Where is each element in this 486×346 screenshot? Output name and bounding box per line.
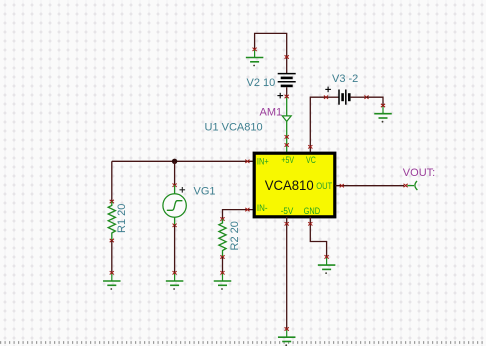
svg-text:OUT: OUT	[316, 181, 332, 191]
svg-text:IN-: IN-	[257, 203, 268, 213]
wire R2 to ground	[222, 257, 224, 273]
pin VC terminal	[308, 145, 312, 148]
wire R1 to ground	[111, 241, 113, 273]
pin IN+ terminal	[245, 160, 249, 163]
svg-text:VG1: VG1	[194, 186, 216, 198]
wire junction to VG1	[174, 161, 176, 185]
resistor R1	[108, 200, 115, 242]
svg-text:GND: GND	[304, 206, 321, 216]
wire IN- to R2	[223, 210, 253, 219]
wire R1 down	[111, 161, 113, 201]
wire VG1 to ground	[174, 225, 176, 272]
wire top-left loop V2 to ground	[255, 33, 287, 57]
generator VG1	[163, 184, 186, 228]
pin GND terminal	[308, 222, 312, 225]
ammeter AM1	[282, 95, 291, 152]
svg-text:V3 -2: V3 -2	[332, 73, 358, 85]
ground R2	[214, 271, 232, 290]
svg-text:AM1: AM1	[260, 107, 283, 119]
resistor R2	[219, 217, 226, 258]
ground GND pin	[318, 255, 336, 274]
svg-text:R2 20: R2 20	[229, 221, 241, 250]
wire GND pin to ground	[310, 217, 326, 257]
ground V3	[374, 104, 392, 123]
pin -5V terminal	[285, 222, 289, 225]
wire V3 to ground	[367, 97, 384, 105]
svg-text:VCA810: VCA810	[265, 177, 314, 193]
wire OUT to VOUT pin	[335, 185, 404, 187]
ground top-left	[246, 48, 264, 67]
pin IN- terminal	[245, 208, 249, 211]
ground R1	[103, 271, 121, 290]
battery V2	[277, 55, 295, 98]
svg-text:VC: VC	[306, 155, 316, 165]
pin OUT terminal	[340, 184, 344, 187]
svg-text:IN+: IN+	[257, 157, 269, 167]
svg-text:U1 VCA810: U1 VCA810	[205, 122, 263, 134]
svg-text:R1 20: R1 20	[116, 204, 128, 233]
svg-text:V2 10: V2 10	[247, 77, 276, 89]
wire -5V pin to ground	[286, 217, 288, 329]
wire input net R1/junction to IN+	[112, 160, 253, 162]
ground VG1	[166, 271, 184, 290]
output pin VOUT	[404, 181, 418, 190]
battery V3	[324, 87, 369, 105]
node junction	[172, 159, 177, 164]
svg-text:-5V: -5V	[281, 206, 294, 216]
ground -5V	[278, 327, 296, 346]
svg-text:VOUT:: VOUT:	[403, 167, 435, 179]
page border dashed line	[0, 341, 486, 344]
op-amp U1 VCA810 body	[254, 153, 335, 217]
svg-text:+5V: +5V	[281, 155, 294, 165]
wire VC pin up and to V3	[310, 97, 326, 152]
